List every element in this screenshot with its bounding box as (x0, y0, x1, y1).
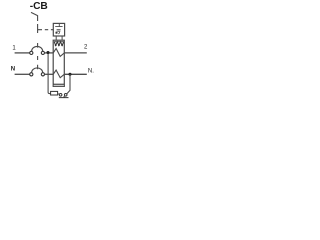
test button contacts (59, 94, 62, 97)
wire CT to terminal N right (64, 73, 87, 75)
CT toroid box (53, 40, 64, 86)
L primary conductor zigzag through CT (53, 49, 64, 57)
trip unit box U1 (53, 23, 64, 36)
trip unit armature symbol (55, 23, 62, 26)
wire contact to node (45, 52, 54, 54)
main contact N bridging arc (32, 68, 43, 73)
mechanical linkage to trip unit (dashed horizontal) (38, 29, 53, 31)
CT secondary winding (sawtooth) (54, 41, 64, 43)
mechanical linkage (dashed vertical) (37, 15, 39, 69)
wire contact N to CT box (45, 73, 54, 75)
test branch wire from node L down (48, 54, 51, 94)
wire resistor to test button (58, 93, 60, 96)
node L junction dot (46, 51, 49, 54)
node N junction dot (68, 73, 71, 76)
test resistor R (51, 91, 58, 95)
main contact L (fixed circles) (30, 51, 33, 54)
svg-text:1: 1 (12, 45, 16, 51)
svg-text:N.: N. (88, 69, 94, 75)
breaker handle lever (31, 12, 38, 15)
permanent magnet bars (57, 30, 61, 32)
N primary conductor zigzag through CT (53, 70, 64, 78)
wire test button to node N (67, 74, 70, 94)
CT core bottom bar (54, 85, 64, 87)
svg-text:N: N (11, 67, 15, 73)
coil arc (58, 31, 59, 34)
main contact L bridging arc (32, 46, 43, 51)
wire CT to terminal 2 (64, 52, 87, 54)
wire terminalN to contact (15, 73, 30, 75)
wires trip unit to CT secondary (56, 36, 62, 40)
main contact N (fixed circles) (30, 73, 33, 76)
svg-text:-CB: -CB (30, 1, 48, 12)
coil core square (56, 32, 58, 34)
wire terminal1 to contact (15, 52, 30, 54)
svg-text:2: 2 (84, 44, 88, 50)
test button actuator (59, 96, 69, 98)
